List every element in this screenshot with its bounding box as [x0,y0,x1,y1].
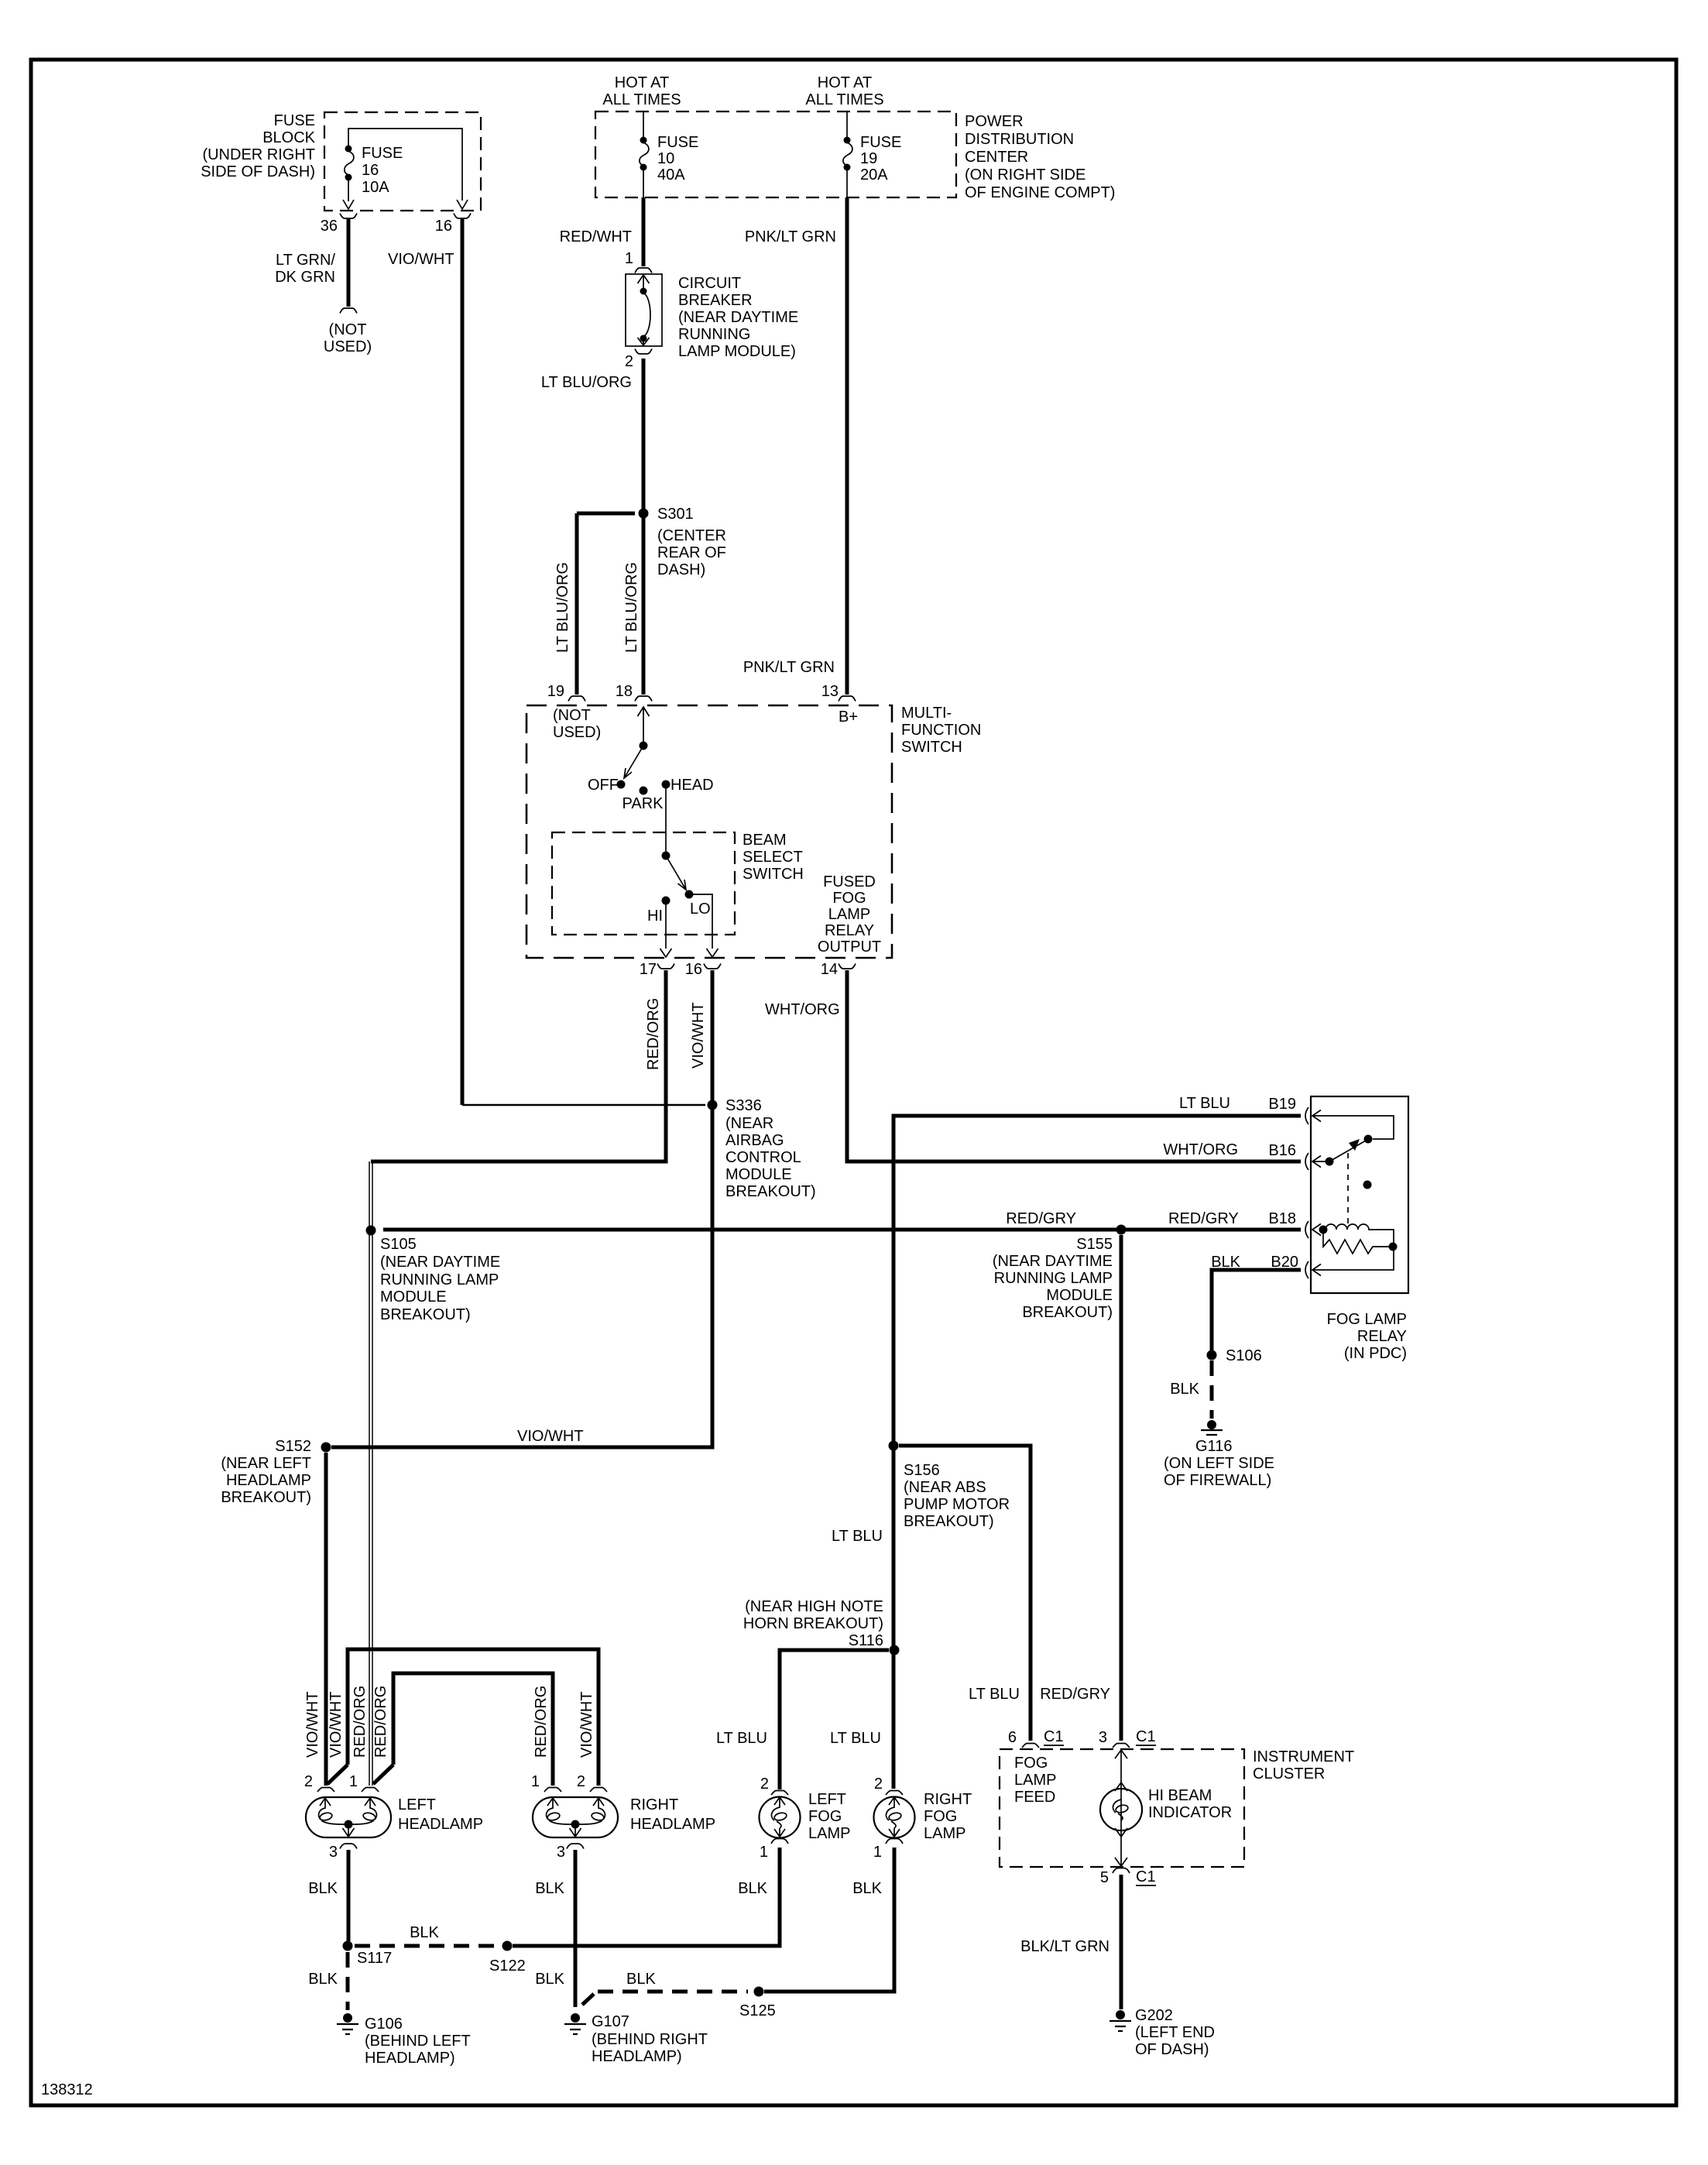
svg-text:BLK: BLK [852,1880,882,1897]
svg-text:S125: S125 [739,2002,776,2019]
connector cup cluster pin 3 [1113,1744,1130,1748]
connector cup cluster pin 5 [1113,1868,1130,1874]
svg-text:RIGHT: RIGHT [924,1791,972,1808]
CB contact arc [643,293,650,337]
svg-text:VIO/WHT: VIO/WHT [328,1691,345,1758]
svg-text:LAMP: LAMP [924,1825,965,1842]
connector bracket B20 [1305,1261,1308,1278]
svg-text:5: 5 [1100,1869,1109,1886]
ground G107 [571,2013,580,2023]
wire RED/ORG branch between headlamps pin 1 [393,1673,553,1786]
ground G116 [1207,1420,1216,1429]
beam select blade toward LO [666,856,686,890]
svg-text:3: 3 [557,1844,565,1861]
hi beam indicator shaft with arrows [1115,1750,1127,1866]
right headlamp common dot [571,1820,580,1829]
left headlamp bulb 1 (pin2 side) [319,1798,331,1820]
svg-text:FUSE: FUSE [860,134,901,151]
relay NC contact dot [1363,1181,1372,1189]
connector cup right headlamp pin 3 [567,1844,584,1849]
svg-text:(NEAR HIGH NOTE: (NEAR HIGH NOTE [745,1598,883,1615]
svg-text:WHT/ORG: WHT/ORG [1163,1141,1238,1158]
svg-text:BLK: BLK [738,1880,767,1897]
wire BLK dashed S117 to S122 [355,1944,500,1948]
wire end cap (not used) [340,308,357,314]
svg-text:FEED: FEED [1014,1789,1055,1806]
connector cup at CB pin 2 [635,349,652,355]
svg-text:2: 2 [874,1776,883,1793]
wire LT BLU S116 branch to left fog lamp pin 2 [780,1650,889,1789]
svg-text:20A: 20A [860,166,888,184]
svg-text:RUNNING LAMP: RUNNING LAMP [380,1271,499,1288]
svg-text:S122: S122 [489,1957,526,1975]
left headlamp body [306,1797,391,1837]
svg-text:PNK/LT GRN: PNK/LT GRN [743,659,835,676]
svg-text:S156: S156 [904,1462,940,1479]
svg-text:RELAY: RELAY [825,922,874,939]
svg-text:S152: S152 [275,1438,311,1455]
splice S105 [366,1226,376,1236]
svg-text:(NEAR LEFT: (NEAR LEFT [221,1455,311,1472]
svg-text:VIO/WHT: VIO/WHT [388,251,454,268]
svg-text:C1: C1 [1136,1728,1156,1745]
right headlamp body [533,1797,618,1837]
wire fuse19 to PDC edge [846,170,848,197]
svg-text:INSTRUMENT: INSTRUMENT [1253,1748,1354,1765]
circuit breaker body [626,274,662,346]
svg-text:MULTI-: MULTI- [901,705,952,722]
wire BLK S125 to right fog pin 1 [764,1848,894,1992]
connector cup at MFS pin 19 [568,696,585,702]
wire HEAD contact down to beam select [665,788,667,853]
svg-text:REAR OF: REAR OF [657,544,726,561]
fuse F19 20A [844,137,851,144]
svg-text:HEADLAMP): HEADLAMP) [592,2048,682,2065]
connector bracket B19 [1305,1107,1308,1124]
svg-text:RELAY: RELAY [1357,1328,1407,1345]
svg-text:(LEFT END: (LEFT END [1135,2024,1215,2041]
svg-text:(CENTER: (CENTER [657,527,726,544]
svg-text:(NEAR: (NEAR [725,1115,773,1132]
svg-text:FOG: FOG [924,1808,957,1825]
fuse F10 40A [640,137,647,144]
svg-text:LT BLU: LT BLU [716,1730,767,1747]
svg-text:(NOT: (NOT [553,707,591,724]
wire PNK/LT GRN fuse19 down to switch pin 13 [845,197,849,695]
svg-text:(BEHIND RIGHT: (BEHIND RIGHT [592,2031,708,2048]
svg-text:BREAKOUT): BREAKOUT) [725,1183,816,1200]
svg-text:BREAKER: BREAKER [678,292,753,309]
svg-text:ALL TIMES: ALL TIMES [602,91,681,108]
svg-text:S301: S301 [657,506,694,523]
svg-text:OF DASH): OF DASH) [1135,2041,1209,2058]
connector cup cluster pin 6 [1022,1744,1039,1748]
svg-text:18: 18 [616,683,633,700]
svg-text:HEAD: HEAD [671,777,714,794]
svg-text:FOG LAMP: FOG LAMP [1327,1311,1407,1328]
svg-text:S336: S336 [725,1097,762,1114]
relay actuator dashed link [1347,1153,1349,1224]
svg-text:LT BLU: LT BLU [832,1528,883,1545]
beam select switch box [552,832,735,935]
svg-text:SWITCH: SWITCH [901,739,962,756]
svg-text:PUMP MOTOR: PUMP MOTOR [904,1496,1010,1513]
svg-text:6: 6 [1008,1729,1017,1746]
multi-function switch box [526,705,892,958]
splice S125 [754,1987,764,1997]
wire BLK dashed to S125 [598,1990,748,1994]
connector bracket B18 [1305,1221,1308,1238]
svg-text:SIDE OF DASH): SIDE OF DASH) [201,163,315,180]
splice S155 [1116,1225,1127,1235]
svg-text:(NOT: (NOT [329,321,367,338]
svg-text:LT BLU/ORG: LT BLU/ORG [541,374,632,391]
svg-text:LT BLU: LT BLU [1179,1095,1230,1112]
connector cup at MFS pin 17 [657,964,674,969]
connector cup left headlamp pin 3 [340,1844,357,1849]
wire BLK S122 to left fog pin 1 [513,1848,780,1946]
wire BLK left headlamp pin 3 to S117 [347,1850,351,1941]
svg-text:(BEHIND LEFT: (BEHIND LEFT [365,2033,471,2050]
HEAD contact dot [662,781,671,789]
left fog lamp circle [760,1797,801,1838]
svg-text:BLK: BLK [308,1971,338,1988]
svg-text:RED/ORG: RED/ORG [352,1686,369,1758]
connector cup right headlamp pin 2 [590,1788,607,1793]
svg-text:1: 1 [873,1844,882,1861]
svg-text:RED/ORG: RED/ORG [533,1686,550,1758]
wire hot feed into fuse 10 [643,112,644,138]
svg-text:BLK: BLK [410,1924,439,1941]
hi beam indicator filament [1113,1800,1121,1813]
LO contact dot [685,890,694,899]
svg-text:CIRCUIT: CIRCUIT [678,275,741,292]
HI contact dot [662,897,671,905]
wire LT GRN/DK GRN (not used) [347,219,351,307]
connector bracket B16 [1305,1153,1308,1170]
svg-text:BREAKOUT): BREAKOUT) [380,1306,471,1323]
svg-text:BREAKOUT): BREAKOUT) [1022,1304,1113,1321]
connector cup left fog pin 2 [771,1791,788,1796]
relay common dot [1326,1158,1334,1166]
CB internal up arrow [638,275,650,288]
svg-text:OUTPUT: OUTPUT [818,938,881,956]
svg-text:(UNDER RIGHT: (UNDER RIGHT [202,146,315,163]
svg-text:SWITCH: SWITCH [743,866,804,883]
svg-text:36: 36 [321,218,338,235]
wire BLK dashed diagonal G107 to S125 run [582,1994,594,2005]
fog lamp relay box [1311,1096,1408,1293]
splice S106 [1207,1350,1217,1360]
fuse block box (under right side of dash) [324,112,481,211]
svg-text:OFF: OFF [588,777,619,794]
connector cup right fog pin 1 [886,1839,903,1844]
connector cup right fog pin 2 [886,1791,903,1796]
svg-text:LT BLU: LT BLU [969,1686,1020,1703]
svg-text:10: 10 [657,150,674,167]
svg-text:RUNNING: RUNNING [678,326,750,343]
wire fuse block internal feed [348,129,462,201]
svg-text:C1: C1 [1044,1728,1064,1745]
svg-text:1: 1 [531,1773,540,1790]
arrow down at fuse block pin 36 [343,200,354,209]
svg-text:PARK: PARK [622,795,664,812]
CB contact dots [640,288,647,295]
wire BLK dashed S117 to G106 [346,1952,350,2010]
svg-text:C1: C1 [1136,1868,1156,1885]
svg-text:DK GRN: DK GRN [275,269,335,286]
svg-text:2: 2 [625,353,633,370]
svg-text:FUSE: FUSE [657,134,698,151]
wire fuse10 to PDC edge [643,170,644,197]
switch wiper blade toward OFF [624,746,643,778]
svg-text:(NEAR DAYTIME: (NEAR DAYTIME [993,1253,1113,1270]
svg-text:BREAKOUT): BREAKOUT) [904,1513,994,1530]
left headlamp bulb 2 (pin1 side) [365,1798,376,1820]
svg-text:RED/GRY: RED/GRY [1006,1210,1076,1227]
svg-text:BLOCK: BLOCK [262,129,315,146]
left headlamp common dot [345,1820,353,1829]
svg-text:LAMP: LAMP [808,1825,850,1842]
relay coil [1326,1224,1394,1245]
right headlamp bulb 2 (pin2 side) [593,1798,605,1820]
wire LT BLU S156 branch to cluster pin 6 [899,1446,1031,1741]
connector cup at MFS pin 14 [839,964,856,969]
svg-text:CENTER: CENTER [965,149,1028,166]
svg-text:HI: HI [647,908,663,925]
svg-text:14: 14 [821,961,838,978]
wire RED/WHT fuse10 to circuit breaker [642,197,646,266]
splice S156 [889,1441,899,1451]
svg-text:G116: G116 [1195,1438,1232,1455]
svg-text:G106: G106 [365,2016,403,2033]
svg-text:(ON LEFT SIDE: (ON LEFT SIDE [1164,1455,1274,1472]
connector cup at MFS pin 13 [839,696,856,702]
connector cup at MFS pin 16 [704,964,721,969]
svg-text:S155: S155 [1076,1236,1113,1253]
svg-text:FUSE: FUSE [274,112,315,129]
connector cup at pin 16 [454,214,471,219]
svg-text:BLK: BLK [626,1971,656,1988]
svg-text:RED/ORG: RED/ORG [372,1686,389,1758]
svg-text:USED): USED) [324,338,372,355]
wire VIO/WHT switch pin 16 down to corner [331,970,712,1447]
svg-text:VIO/WHT: VIO/WHT [578,1691,595,1758]
svg-text:1: 1 [349,1773,358,1790]
svg-text:VIO/WHT: VIO/WHT [690,1002,707,1069]
connector cup left headlamp pin 1 [362,1788,379,1793]
svg-text:S106: S106 [1226,1347,1262,1364]
wire LO to pin 16 [689,894,712,949]
hi beam indicator bulb circle [1100,1789,1142,1830]
svg-text:VIO/WHT: VIO/WHT [517,1428,584,1445]
wire LT BLU/ORG CB pin2 down to switch pin 18 [642,359,646,695]
resistor node dot [1389,1243,1398,1251]
svg-text:16: 16 [685,961,702,978]
splice S301 [639,509,649,519]
svg-text:G202: G202 [1135,2007,1173,2024]
svg-text:OF FIREWALL): OF FIREWALL) [1164,1472,1271,1489]
svg-text:AIRBAG: AIRBAG [725,1132,784,1149]
svg-text:10A: 10A [362,179,389,196]
svg-text:40A: 40A [657,166,685,184]
relay switch blade [1329,1141,1366,1161]
fuse F16 10A [345,146,352,153]
svg-text:19: 19 [860,150,877,167]
svg-text:2: 2 [304,1773,313,1790]
connector cup at MFS pin 18 [635,696,652,702]
svg-text:LT GRN/: LT GRN/ [276,252,335,269]
svg-text:HOT AT: HOT AT [818,74,872,91]
svg-text:PNK/LT GRN: PNK/LT GRN [745,228,836,245]
svg-text:MODULE: MODULE [725,1166,792,1183]
svg-text:LT BLU: LT BLU [830,1730,881,1747]
svg-text:MODULE: MODULE [380,1288,447,1306]
svg-text:BLK: BLK [535,1971,564,1988]
right headlamp down arrow to pin 3 [570,1827,581,1837]
svg-text:POWER: POWER [965,113,1024,130]
svg-text:BLK: BLK [1170,1381,1199,1398]
svg-text:CONTROL: CONTROL [725,1149,801,1166]
svg-text:FUSE: FUSE [362,145,403,162]
wire VIO/WHT from fuse block pin 16 down to S336 [461,219,465,1105]
svg-text:LT BLU/ORG: LT BLU/ORG [554,562,571,653]
svg-text:G107: G107 [592,2013,629,2030]
wire VIO/WHT diagonal into left headlamp pin 2 [328,1765,348,1784]
svg-text:RUNNING LAMP: RUNNING LAMP [994,1270,1113,1287]
right fog lamp circle [874,1797,915,1838]
svg-text:DASH): DASH) [657,561,705,578]
svg-text:HEADLAMP: HEADLAMP [398,1816,483,1833]
svg-text:LEFT: LEFT [808,1791,846,1808]
wire RED/GRY S105 to relay B18 [383,1228,1301,1232]
splice S122 [502,1941,513,1951]
wire RED/ORG switch pin 17 down then left [371,970,666,1161]
svg-text:LEFT: LEFT [398,1796,436,1813]
svg-text:FUSED: FUSED [823,873,876,890]
svg-text:HEADLAMP: HEADLAMP [226,1472,311,1489]
svg-text:16: 16 [362,162,379,179]
ground G202 [1116,2010,1125,2019]
svg-text:BEAM: BEAM [743,832,787,849]
svg-text:LAMP MODULE): LAMP MODULE) [678,343,796,360]
svg-text:FUNCTION: FUNCTION [901,722,981,739]
wire HI to pin 17 [665,904,667,949]
beam select pivot dot [662,852,671,860]
svg-text:S105: S105 [380,1236,417,1253]
svg-text:B+: B+ [839,709,858,726]
arrow down at fuse block pin 16 [457,200,468,209]
wire VIO/WHT S152 down to left headlamp pin 2 [324,1453,328,1786]
svg-text:DISTRIBUTION: DISTRIBUTION [965,131,1074,148]
svg-text:B19: B19 [1268,1096,1296,1113]
connector cup right headlamp pin 1 [544,1788,561,1793]
wire VIO/WHT branch between headlamps pin 2 [348,1649,598,1786]
connector cup at pin 36 [340,214,357,219]
svg-text:VIO/WHT: VIO/WHT [304,1691,321,1758]
svg-text:3: 3 [1099,1729,1107,1746]
CB internal down arrow [638,338,650,345]
svg-text:OF ENGINE COMPT): OF ENGINE COMPT) [965,184,1115,201]
svg-text:FOG: FOG [808,1808,842,1825]
PARK contact dot [640,787,648,795]
svg-text:BLK/LT GRN: BLK/LT GRN [1020,1938,1110,1955]
svg-text:S117: S117 [357,1950,392,1967]
svg-text:LAMP: LAMP [828,906,870,923]
svg-text:B16: B16 [1268,1142,1296,1159]
svg-text:RED/WHT: RED/WHT [560,228,632,245]
svg-text:(NEAR DAYTIME: (NEAR DAYTIME [380,1254,500,1271]
wire RED/ORG diagonal into left headlamp pin 1 [373,1765,393,1784]
svg-text:LAMP: LAMP [1014,1772,1056,1789]
svg-text:HEADLAMP: HEADLAMP [630,1816,715,1833]
svg-text:3: 3 [329,1844,338,1861]
svg-text:USED): USED) [553,724,601,741]
svg-text:MODULE: MODULE [1046,1287,1113,1304]
left headlamp down arrow to pin 3 [343,1827,355,1837]
wire RED/ORG hollow run down to left headlamp pin 1 [369,1161,372,1786]
svg-text:13: 13 [821,683,839,700]
wire LT BLU relay B19 left then down [893,1116,1301,1789]
svg-text:RED/GRY: RED/GRY [1168,1210,1239,1227]
svg-text:INDICATOR: INDICATOR [1148,1804,1232,1821]
splice S116 [890,1645,900,1655]
svg-text:RED/ORG: RED/ORG [645,998,662,1070]
switch wiper arrow to pin 18 [638,707,650,743]
wire hot feed into fuse 19 [846,112,848,138]
svg-text:BLK: BLK [308,1880,338,1897]
relay internal line from B19 to contact [1312,1116,1394,1139]
right headlamp bulb 1 (pin1 side) [547,1798,558,1820]
svg-text:B18: B18 [1268,1210,1296,1227]
relay coil node dot [1319,1226,1328,1234]
svg-text:(IN PDC): (IN PDC) [1344,1345,1407,1362]
connector cup at CB pin 1 [635,268,652,273]
svg-text:BLK: BLK [535,1880,564,1897]
ground G106 [343,2013,352,2023]
svg-text:(NEAR ABS: (NEAR ABS [904,1479,986,1496]
svg-text:RIGHT: RIGHT [630,1796,678,1813]
right fog lamp filament [886,1797,900,1820]
svg-text:FOG: FOG [1014,1755,1048,1772]
svg-text:S116: S116 [849,1632,883,1649]
svg-text:HI BEAM: HI BEAM [1148,1787,1212,1804]
wire fuse16 to pin36 [348,180,349,201]
svg-text:SELECT: SELECT [743,849,803,866]
svg-text:LT BLU/ORG: LT BLU/ORG [623,562,640,653]
wire BLK dashed S106 to G116 [1210,1360,1214,1419]
svg-text:CLUSTER: CLUSTER [1253,1765,1325,1782]
relay common line B16 [1312,1161,1326,1162]
wire WHT/ORG switch pin 14 to relay B16 [847,970,1301,1161]
svg-text:1: 1 [625,250,633,267]
svg-text:(NEAR DAYTIME: (NEAR DAYTIME [678,309,798,326]
relay internal line B20 to coil [1312,1250,1394,1270]
svg-text:ALL TIMES: ALL TIMES [805,91,883,108]
left fog lamp filament [771,1797,785,1820]
wire BLK relay B20 to S106 [1212,1270,1301,1350]
svg-text:WHT/ORG: WHT/ORG [765,1001,840,1018]
splice S117 [343,1941,353,1951]
power distribution center box [595,112,956,197]
svg-text:17: 17 [640,961,657,978]
OFF contact dot [617,781,626,789]
splice S152 [321,1443,331,1453]
svg-text:19: 19 [547,683,564,700]
svg-text:HOT AT: HOT AT [615,74,669,91]
wire BLK/LT GRN cluster pin 5 to G202 [1120,1875,1123,2009]
svg-text:1: 1 [760,1844,768,1861]
